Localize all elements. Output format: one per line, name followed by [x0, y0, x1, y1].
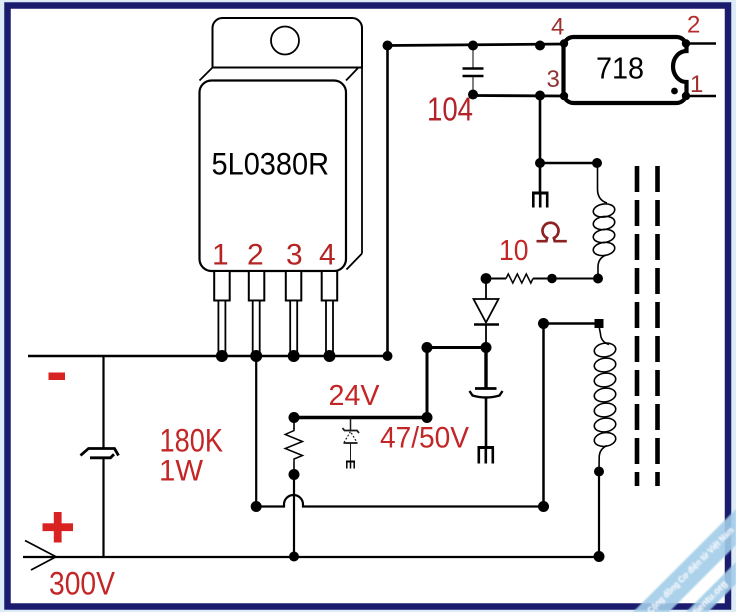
wire bottom rail: [23, 556, 599, 558]
node lower-rail gnd: [535, 91, 545, 101]
input arrow: [25, 541, 57, 571]
wire 24V riser: [426, 348, 429, 418]
node 24V corner: [422, 342, 433, 353]
node D1 anode: [481, 342, 492, 353]
label plus: [43, 512, 74, 543]
node riser-top: [383, 41, 393, 51]
node bottom-rail-right: [594, 551, 605, 562]
node pin2-drop: [251, 501, 262, 512]
wire hop run: [256, 495, 544, 507]
svg-text:5L0380R: 5L0380R: [212, 146, 330, 182]
leg pin3: [286, 271, 302, 356]
pin dot U2-4: [560, 39, 568, 47]
wire rail-to-top riser: [386, 46, 389, 357]
transformer T1 primary winding: [592, 164, 615, 279]
wire secondary top: [544, 322, 600, 325]
node primary top: [592, 158, 602, 168]
watermark band 2: [681, 562, 736, 612]
ground G1: [532, 193, 549, 208]
svg-text:3: 3: [547, 66, 560, 93]
node C1 bottom: [468, 90, 478, 100]
IC U1 5L0380R package: [200, 18, 363, 271]
svg-text:718: 718: [596, 51, 644, 86]
node R2 mid: [547, 274, 557, 284]
wire gnd drop: [539, 96, 542, 194]
svg-text:2: 2: [247, 239, 264, 272]
transformer T1 core: [637, 166, 658, 486]
node top-rail pin4stub: [535, 41, 545, 51]
node R2 left: [481, 273, 492, 284]
ground G2 small: [346, 462, 355, 469]
svg-text:1: 1: [690, 71, 703, 98]
node pin3-rail: [288, 350, 300, 362]
wire R1 to bottom rail: [293, 475, 295, 557]
leg pin4: [322, 271, 338, 356]
label minus: [49, 373, 66, 381]
wire main rail: [28, 355, 388, 357]
node primary bottom: [593, 274, 603, 284]
node gnd branch: [535, 158, 545, 168]
node R1 top: [289, 412, 300, 423]
resonator U2 718: [564, 37, 717, 103]
svg-text:1W: 1W: [159, 455, 204, 488]
pin dot U2-1: [682, 92, 690, 100]
wire 104 lower rail: [473, 94, 564, 97]
svg-text:47/50V: 47/50V: [380, 422, 469, 455]
capacitor C3 input: [81, 356, 119, 557]
label ohm: [537, 223, 567, 241]
wire to primary top: [540, 162, 597, 165]
watermark band 1: [633, 509, 736, 612]
svg-text:300V: 300V: [49, 566, 116, 602]
zener diode D2: [343, 418, 360, 462]
diode D1: [474, 279, 500, 348]
ground G3: [478, 448, 495, 464]
node R1-bottom-rail: [289, 552, 299, 562]
node top-rail C1: [468, 41, 478, 51]
capacitor C1 104: [463, 46, 484, 96]
pin dot U2-2: [682, 39, 690, 47]
wire 24V run: [294, 416, 427, 419]
node secondary bottom: [594, 467, 604, 477]
node secondary-top: [595, 319, 604, 328]
wire secondary to bottom rail: [598, 472, 600, 557]
pin dot U2-3: [560, 92, 568, 100]
node 24V tee: [422, 412, 433, 423]
node secondary-left: [538, 318, 549, 329]
wire diode-to-node: [427, 346, 486, 349]
svg-text:4: 4: [319, 239, 336, 272]
node hop-right: [538, 501, 549, 512]
node riser-rail: [383, 351, 393, 361]
wire top rail: [388, 44, 565, 46]
capacitor C2 47/50V: [470, 348, 503, 448]
svg-text:104: 104: [427, 91, 473, 128]
svg-text:2: 2: [687, 12, 700, 39]
wire secondary left riser: [542, 324, 545, 507]
leg pin1: [214, 271, 230, 356]
polarity dot U2: [671, 88, 678, 95]
svg-text:24V: 24V: [329, 380, 381, 412]
wire pin2 drop: [255, 356, 257, 507]
wire 10ohm row: [486, 278, 598, 280]
resistor R1 180K: [285, 418, 302, 475]
transformer T1 secondary winding: [593, 326, 616, 472]
svg-text:4: 4: [551, 14, 564, 41]
node pin1-rail: [216, 350, 228, 362]
resistor R2 10ohm: [506, 274, 533, 283]
svg-text:180K: 180K: [160, 423, 224, 459]
node pin2-rail: [250, 350, 262, 362]
leg pin2: [249, 271, 264, 356]
svg-text:10: 10: [499, 235, 529, 267]
node R1 bottom: [289, 469, 300, 480]
svg-text:1: 1: [212, 239, 229, 272]
node pin4-rail: [324, 350, 336, 362]
svg-text:3: 3: [286, 239, 303, 272]
